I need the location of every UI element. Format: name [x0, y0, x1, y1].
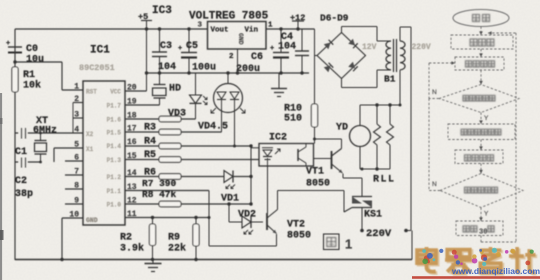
wire pin10 ground: [62, 217, 83, 219]
resistor R7: [125, 176, 224, 178]
wire xtal pin5: [54, 147, 83, 149]
flowchart arrow 5: [480, 140, 482, 151]
flowchart box output: [455, 150, 503, 164]
page edge artifact: [0, 93, 2, 280]
transformer B1: [386, 41, 391, 70]
wire R8 node down: [227, 202, 230, 205]
resistor R4: [125, 131, 222, 133]
resistor R9: [195, 218, 197, 225]
node reset junction: [13, 60, 16, 63]
wire top +5 rail: [15, 28, 208, 30]
flowchart arrow 6: [480, 164, 482, 174]
flowchart arrow 7: [480, 208, 482, 222]
wire xtal pin4: [15, 132, 83, 134]
wire VD4.5 legs: [221, 100, 223, 110]
capacitor C5: [188, 29, 190, 53]
wire +12 to bridge: [314, 29, 316, 104]
wire node column: [250, 146, 252, 204]
capacitor C6: [280, 29, 282, 53]
wire bottom rail: [15, 259, 412, 261]
wire bridge top to transformer: [341, 27, 343, 33]
wire R5 to IC2: [251, 147, 259, 149]
node +5 junction dots: [145, 27, 148, 30]
wire VT2 emitter down: [276, 234, 278, 246]
capacitor C4: [301, 29, 303, 51]
wire VT1 collector: [341, 139, 343, 149]
flowchart box scan: [455, 57, 504, 70]
wire pin20 vcc: [125, 90, 147, 92]
wire vcc bus: [147, 72, 310, 74]
capacitor C0: [8, 46, 22, 48]
led VD1: [224, 171, 233, 183]
wire pin2 pin3 stubs: [73, 102, 83, 104]
resistor RLL element1: [376, 105, 378, 124]
transistor VT2 8050: [266, 213, 268, 230]
led VD4.5 dual: [227, 73, 229, 84]
wire triac to mains: [361, 208, 363, 231]
flowchart box delay: [456, 221, 503, 236]
resistor R8: [125, 203, 251, 205]
resistor R2: [152, 218, 154, 225]
resistor R1: [12, 67, 18, 92]
resistor R10: [311, 104, 317, 127]
watermark color dots: [452, 250, 457, 255]
capacitor C3: [159, 29, 161, 52]
flowchart return loop: [480, 236, 482, 243]
wire primary bottom: [399, 70, 401, 105]
flowchart N loop: [429, 98, 439, 100]
ground main: [152, 260, 154, 264]
watermark logo: [419, 249, 537, 275]
crystal body: [40, 133, 42, 140]
wire VT1 emitter to triac: [342, 174, 344, 179]
wire ic2 out to VT1: [314, 158, 332, 160]
ground regulator: [278, 73, 280, 88]
wire regulator gnd pin: [237, 49, 239, 73]
ic IC1 89C2051: [83, 81, 125, 225]
wire pin13 down: [125, 190, 209, 192]
flowchart decision time: [440, 174, 523, 208]
wire mains right: [410, 27, 412, 231]
node mains 220V: [360, 229, 364, 233]
wire pin6-9 stubs: [65, 160, 83, 162]
flowchart box display: [448, 124, 515, 140]
wire reset to pin1: [15, 61, 62, 63]
capacitor C1: [19, 129, 28, 138]
watermark red underline: [412, 276, 540, 279]
led VD3: [195, 73, 197, 95]
buzzer HD: [125, 104, 160, 106]
flowchart arrow 2: [480, 49, 482, 57]
flowchart start oval: [453, 10, 509, 27]
wire R10 to IC2: [314, 127, 316, 144]
wire regulator out to +12 rail: [266, 28, 315, 30]
wire primary top: [399, 27, 401, 41]
figure label 1: [324, 234, 340, 250]
ic2 phototransistor: [297, 149, 299, 161]
flowchart arrow 3: [480, 70, 482, 85]
resistor R5: [125, 145, 251, 147]
wire pin11: [125, 217, 209, 219]
flowchart arrow 1: [480, 27, 482, 36]
resistor RLL element2: [389, 105, 391, 124]
flowchart arrow 4: [480, 113, 482, 125]
resistor R3: [125, 118, 196, 120]
wire load bus bottom: [360, 168, 390, 170]
led VD2: [229, 221, 242, 223]
wire left rail: [14, 29, 16, 260]
transistor VT1 8050: [331, 151, 333, 169]
capacitor C2: [19, 158, 28, 167]
wire load bus top: [360, 104, 400, 106]
resistor R6: [125, 159, 259, 161]
wire pin13 bottom run: [209, 245, 277, 247]
wire bridge bottom loop: [341, 79, 343, 88]
wire VT2 collector to gate: [343, 191, 345, 213]
buzzer YD: [359, 105, 361, 126]
wire ic2 led cathode down: [267, 158, 269, 166]
wire VT2 collector up: [277, 191, 279, 210]
wire mains right corner: [411, 231, 413, 260]
triac KS1: [352, 197, 372, 208]
flowchart box init: [451, 35, 513, 49]
flowchart N loop 2: [429, 190, 440, 192]
flowchart decision key: [439, 85, 519, 113]
